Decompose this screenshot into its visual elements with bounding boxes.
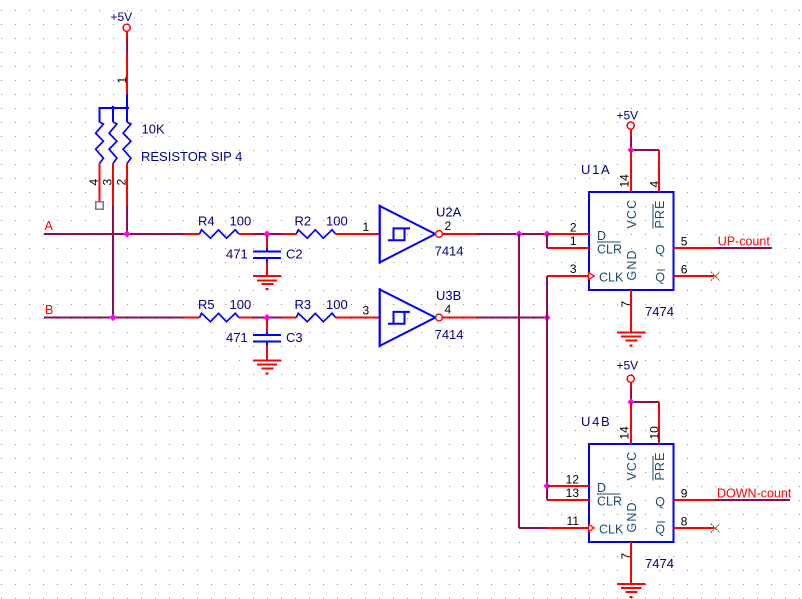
D flip-flop U1A 7474	[547, 150, 716, 332]
pin 4 PRE	[658, 150, 660, 192]
svg-text:C2: C2	[286, 247, 303, 262]
ground (C2)	[253, 276, 281, 289]
junction at U4B D	[543, 482, 550, 489]
svg-text:PRE: PRE	[653, 199, 667, 228]
svg-text:D: D	[597, 229, 606, 243]
capacitor C2 471	[226, 235, 303, 276]
net label DOWN-count	[717, 487, 792, 501]
svg-text:UP-count: UP-count	[718, 235, 771, 249]
pin 14 VCC	[630, 150, 632, 192]
svg-text:1: 1	[363, 220, 370, 234]
svg-text:4: 4	[445, 303, 452, 317]
wire R5 to C3 node	[254, 317, 282, 319]
pin 7 GND	[630, 542, 632, 584]
svg-text:Q: Q	[655, 522, 665, 536]
junction U2A out / to U4B CLK	[515, 230, 522, 237]
wire U2A output	[442, 233, 548, 235]
wire SIP pin3 down to node B	[112, 206, 114, 318]
svg-text:7: 7	[619, 553, 633, 560]
svg-text:CLK: CLK	[599, 270, 624, 284]
svg-text:10K: 10K	[142, 122, 165, 137]
svg-text:8: 8	[681, 514, 688, 528]
svg-text:5: 5	[681, 234, 688, 248]
svg-text:4: 4	[87, 179, 101, 186]
junction +5V U4B	[627, 398, 634, 405]
wire B line	[44, 317, 183, 319]
svg-text:2: 2	[570, 220, 577, 234]
junction U2A out / to U1A CLR	[543, 230, 550, 237]
junction node A-filter	[263, 230, 270, 237]
no connect X (U1A pin 6)	[711, 272, 720, 281]
svg-text:CLK: CLK	[599, 522, 624, 536]
svg-text:3: 3	[570, 262, 577, 276]
svg-text:6: 6	[681, 262, 688, 276]
pins 4,3,2	[99, 164, 101, 202]
zigzag bodies	[96, 122, 104, 164]
svg-text:11: 11	[567, 514, 580, 528]
svg-text:R4: R4	[198, 214, 215, 229]
svg-text:12: 12	[566, 472, 580, 486]
wire U3B output	[442, 317, 547, 319]
resistor R4 100	[183, 214, 254, 239]
no connect X (U4B pin 8)	[711, 524, 720, 533]
svg-text:7: 7	[619, 301, 633, 308]
svg-text:7474: 7474	[645, 304, 674, 319]
svg-text:C3: C3	[286, 330, 303, 345]
svg-text:471: 471	[226, 247, 248, 262]
svg-text:14: 14	[618, 426, 632, 440]
svg-text:1: 1	[115, 77, 129, 84]
resistor R3 100	[282, 297, 380, 321]
wire U3B out up to U1A CLK	[546, 276, 548, 318]
wire U3B out down to U4B D/CLR	[546, 318, 548, 501]
wire +5V to U4B VCC/PRE	[631, 389, 659, 402]
pin 11 CLK	[547, 527, 588, 529]
svg-text:R2: R2	[295, 214, 312, 229]
svg-text:GND: GND	[625, 249, 639, 280]
svg-text:R5: R5	[198, 297, 215, 312]
svg-text:PRE: PRE	[653, 451, 667, 480]
wire +5V to U1A VCC/PRE	[631, 136, 659, 150]
ground (U4B pin 7)	[617, 584, 646, 597]
svg-text:100: 100	[230, 214, 252, 229]
D flip-flop U4B 7474	[547, 402, 716, 584]
wire R4 to C2 node	[254, 233, 282, 235]
svg-text:100: 100	[230, 297, 252, 312]
svg-text:Q: Q	[655, 243, 665, 257]
svg-text:7414: 7414	[435, 243, 464, 258]
svg-text:U3B: U3B	[436, 288, 461, 303]
svg-text:D: D	[597, 481, 606, 495]
svg-text:DOWN-count: DOWN-count	[717, 487, 792, 501]
junction +5V U1A	[627, 146, 634, 153]
pin 2 D	[547, 233, 589, 235]
pin 3 CLK	[547, 275, 588, 277]
capacitor C3 471	[226, 319, 303, 361]
resistor R2 100	[282, 214, 380, 239]
svg-text:+5V: +5V	[110, 10, 132, 24]
svg-text:+5V: +5V	[616, 109, 638, 123]
resistor R5 100	[183, 297, 254, 321]
svg-text:9: 9	[681, 486, 688, 500]
svg-text:R3: R3	[295, 297, 312, 312]
svg-text:3: 3	[101, 179, 115, 186]
svg-text:10: 10	[648, 426, 662, 440]
svg-text:3: 3	[363, 304, 370, 318]
svg-text:B: B	[45, 303, 53, 317]
svg-text:CLR: CLR	[597, 243, 622, 257]
inverter U3B 7414	[380, 288, 464, 347]
svg-text:RESISTOR SIP 4: RESISTOR SIP 4	[141, 149, 242, 164]
svg-text:U2A: U2A	[436, 204, 462, 219]
svg-text:+5V: +5V	[616, 359, 638, 373]
junction U3B out / vertical	[543, 314, 550, 321]
svg-text:100: 100	[326, 297, 348, 312]
no-connect square on SIP pin 4	[96, 202, 104, 210]
pin 5 Q	[674, 247, 716, 249]
svg-text:Q: Q	[655, 495, 665, 509]
svg-text:Q: Q	[655, 270, 665, 284]
power +5V (U1A)	[616, 109, 638, 137]
svg-text:471: 471	[226, 330, 248, 345]
junction A / SIP pin2	[123, 230, 130, 237]
svg-text:4: 4	[648, 181, 662, 188]
inverter U2A 7414	[380, 204, 464, 263]
pin 13 CLR	[547, 499, 589, 501]
pin 9 Q	[674, 499, 716, 501]
svg-text:7474: 7474	[645, 556, 674, 571]
wire U2A out down to U4B CLK	[519, 234, 547, 528]
resistor network RN 10K RESISTOR SIP 4	[87, 53, 242, 206]
net label B	[45, 303, 53, 317]
pin number 1 (U2A input)	[363, 220, 370, 234]
pin number 3 (U3B input)	[363, 304, 370, 318]
svg-text:U1A: U1A	[581, 162, 611, 177]
ground (U1A pin 7)	[617, 332, 646, 345]
svg-text:2: 2	[115, 179, 129, 186]
svg-text:14: 14	[618, 174, 632, 188]
pin 8 QI	[674, 527, 715, 529]
wire SIP pin2 down to node A	[126, 206, 128, 234]
wire to U1A CLR	[546, 234, 548, 248]
pin 1	[126, 53, 128, 94]
wire A line	[44, 233, 183, 235]
pin 7 GND	[630, 290, 632, 332]
wire U1A Q to UP-count	[716, 247, 773, 249]
pin 6 QI	[674, 275, 715, 277]
top bus	[126, 94, 128, 108]
net label UP-count	[718, 235, 771, 249]
wire +5V to SIP pin 1	[126, 39, 128, 54]
svg-text:GND: GND	[625, 501, 639, 532]
power +5V (U4B)	[616, 359, 638, 390]
ground (C3)	[253, 361, 281, 374]
pin 12 D	[547, 485, 589, 487]
svg-text:VCC: VCC	[625, 451, 639, 481]
svg-text:100: 100	[326, 214, 348, 229]
svg-text:A: A	[45, 219, 54, 233]
svg-text:1: 1	[570, 234, 577, 248]
power +5V (top left)	[110, 10, 132, 39]
svg-text:2: 2	[445, 219, 452, 233]
svg-text:U4B: U4B	[581, 414, 611, 429]
svg-text:VCC: VCC	[625, 199, 639, 229]
net label A	[45, 219, 54, 233]
wire U4B Q to DOWN-count	[716, 499, 791, 501]
pin 10 PRE	[658, 402, 660, 444]
svg-text:CLR: CLR	[597, 495, 622, 509]
junction node B-filter	[263, 314, 270, 321]
svg-text:13: 13	[566, 486, 580, 500]
pin 14 VCC	[630, 402, 632, 444]
svg-text:7414: 7414	[435, 327, 464, 342]
junction B / SIP pin3	[109, 314, 116, 321]
pin 1 CLR	[547, 247, 589, 249]
